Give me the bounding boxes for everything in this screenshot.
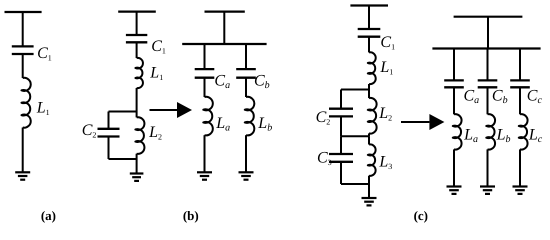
svg-text:(c): (c): [414, 208, 428, 223]
svg-text:(a): (a): [41, 208, 56, 223]
svg-text:(b): (b): [183, 208, 199, 223]
